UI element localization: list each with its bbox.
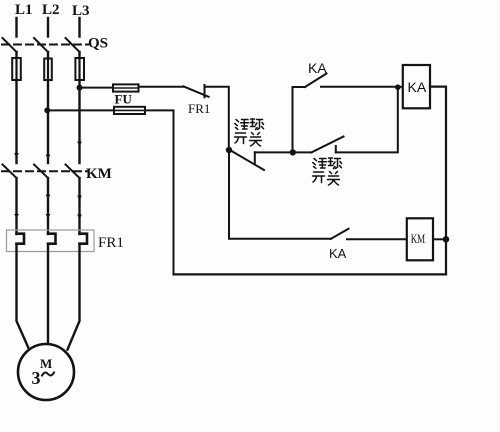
wire phase 2 to motor [47, 244, 49, 344]
label FU [115, 92, 133, 107]
wire phase 1 to motor [17, 244, 29, 348]
svg-text:FU: FU [115, 92, 133, 107]
arrow mark phase 2 [46, 155, 51, 160]
label float switch 1 line 1 (Chinese fu qiu) [235, 119, 264, 130]
svg-text:KA: KA [408, 79, 427, 95]
label FR1 control [188, 101, 210, 116]
label M [40, 356, 52, 371]
node junction KM right [443, 236, 450, 243]
fuse phase 2 [44, 58, 52, 80]
float switch 2 blade [312, 137, 344, 153]
wire L2 tap to fuse FU2 [47, 109, 114, 111]
wire phase 2 vertical [47, 80, 49, 163]
motor M circle [18, 344, 74, 400]
node junction float switch 2 [290, 149, 296, 155]
relay contact KA lower blade [331, 229, 349, 239]
fuse FU lower [114, 107, 145, 114]
wire phase 3 to motor [68, 244, 80, 350]
svg-text:KA: KA [308, 60, 327, 76]
label KM [86, 166, 112, 182]
label float switch 1 line 2 (Chinese kai guan) [235, 133, 262, 147]
wire KA lower contact to KM coil [347, 238, 407, 240]
wire float switch 2 to corner [336, 87, 398, 152]
float switch 1 bar [254, 152, 256, 164]
label L1 [15, 2, 33, 18]
float switch 2 bar [335, 146, 337, 152]
float switch 2 lead [293, 151, 312, 153]
switch QS pole 2 blade [34, 38, 48, 52]
label 3 phase [32, 368, 55, 388]
svg-text:KM: KM [86, 166, 112, 182]
wire L2 upper lead [47, 18, 49, 37]
wire bottom return [174, 273, 447, 275]
wire phase 3 vertical [78, 80, 80, 163]
label KA coil [408, 79, 427, 95]
svg-text:QS: QS [88, 36, 108, 52]
contactor KM pole 2 blade [34, 165, 48, 179]
fuse phase 1 [12, 58, 21, 80]
label KA top [308, 60, 327, 76]
fuse FU upper [113, 84, 139, 91]
svg-text:L3: L3 [72, 3, 90, 19]
arrow mark phase 1 [14, 153, 19, 158]
arrow mark phase 2 lower2 [46, 214, 51, 219]
svg-text:L2: L2 [42, 2, 60, 18]
label float switch 2 line 2 (Chinese kai guan) [313, 172, 340, 186]
wire FU1 to FR1 contact [139, 86, 184, 88]
svg-text:FR1: FR1 [188, 101, 210, 116]
label L2 [42, 2, 60, 18]
contactor KM pole 1 blade [3, 165, 17, 179]
arrow mark phase 2 lower [46, 195, 51, 200]
contactor KM linkage dashed [2, 170, 88, 172]
contact FR1 NC bar [204, 85, 206, 97]
label L3 [72, 3, 90, 19]
arrow mark phase 1 lower2 [14, 214, 19, 219]
node junction KA coil [395, 84, 401, 90]
wire L3 to fuse [78, 52, 80, 58]
wire KA coil to right rail [430, 87, 446, 275]
label QS [88, 36, 108, 52]
fuse phase 3 [75, 58, 84, 80]
wire node to KA coil [398, 86, 403, 88]
wire FU2 to left rail corner [145, 110, 174, 274]
svg-text:M: M [40, 356, 52, 371]
heater element phase 2 [48, 234, 56, 244]
label KA lower [329, 246, 347, 261]
svg-text:FR1: FR1 [98, 235, 124, 251]
wire L1 upper lead [15, 18, 17, 37]
svg-text:3: 3 [32, 368, 41, 388]
svg-text:L1: L1 [15, 2, 33, 18]
wire KM coil to right rail [433, 238, 446, 240]
svg-text:KM: KM [411, 232, 426, 246]
switch QS linkage dashed [2, 44, 88, 46]
node junction float switch 1 [226, 147, 232, 153]
node junction L3 control tap [77, 85, 83, 91]
thermal relay FR1 box [7, 230, 95, 252]
wire KA contact rail [293, 87, 306, 152]
wire KA contact to coil node [321, 86, 398, 88]
label float switch 2 line 1 (Chinese fu qiu) [313, 158, 342, 169]
node junction L2 control tap [44, 107, 50, 113]
svg-text:KA: KA [329, 246, 347, 261]
wire phase 1 vertical [15, 80, 17, 163]
label KM coil [411, 232, 426, 246]
wire phase 3 below KM [78, 178, 80, 234]
wire L2 to fuse [47, 52, 49, 58]
wire phase 2 below KM [47, 178, 49, 234]
float switch 1 blade [229, 150, 264, 171]
wire float switch 1 to node [255, 151, 293, 153]
wire L3 tap to fuse FU1 [80, 87, 114, 89]
arrow mark phase 3 lower [77, 196, 82, 201]
contactor coil KM [407, 218, 433, 260]
heater element phase 1 [17, 234, 25, 244]
switch QS pole 1 blade [3, 38, 17, 52]
wire FR1 contact to corner [205, 87, 229, 150]
arrow mark phase 3 [77, 142, 82, 147]
label FR1 main [98, 235, 124, 251]
heater element phase 3 [80, 234, 88, 244]
wire phase 1 below KM [15, 178, 17, 234]
wire KM line vertical [229, 150, 331, 239]
wire L3 upper lead [78, 18, 80, 37]
contactor KM pole 3 blade [66, 165, 80, 179]
relay coil KA [403, 65, 430, 108]
switch QS pole 3 blade [66, 38, 80, 52]
relay contact KA top blade [305, 74, 327, 88]
wire L1 to fuse [15, 52, 17, 58]
contact FR1 NC blade [183, 86, 208, 97]
arrow mark phase 3 lower2 [77, 215, 82, 220]
